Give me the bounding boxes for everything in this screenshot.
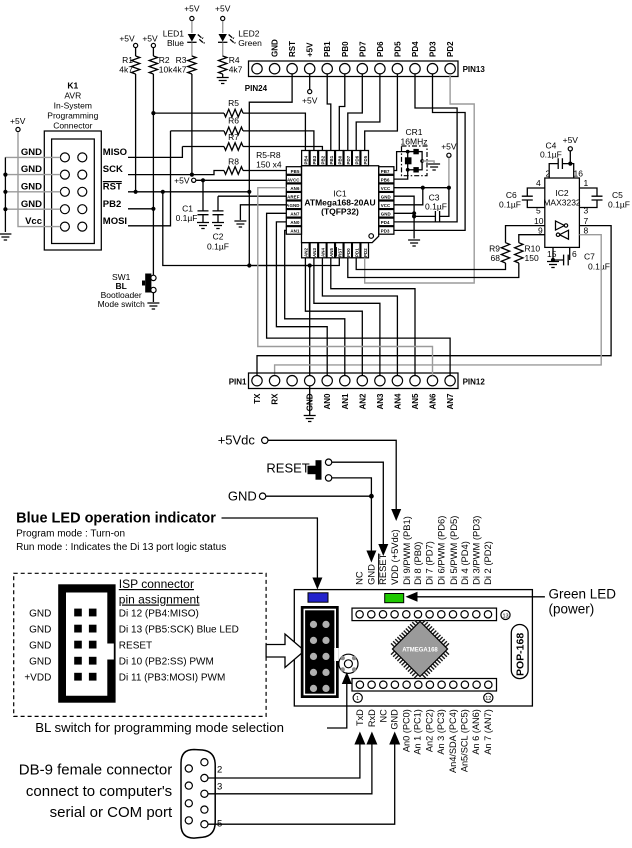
- svg-text:PB6: PB6: [381, 177, 390, 182]
- svg-text:GND: GND: [21, 164, 42, 175]
- header top pin labels: [271, 39, 456, 57]
- svg-text:3: 3: [584, 206, 589, 216]
- ground (crystal): [428, 164, 440, 170]
- resistor R1: [119, 34, 140, 194]
- svg-text:PD1: PD1: [354, 248, 359, 257]
- svg-text:3: 3: [217, 782, 222, 793]
- svg-text:AN7: AN7: [446, 393, 455, 410]
- svg-text:AN3: AN3: [312, 247, 317, 257]
- board bottom pin name labels (rotated): [355, 709, 493, 773]
- svg-text:150: 150: [525, 253, 539, 263]
- svg-text:+5V: +5V: [441, 142, 457, 152]
- svg-text:GND: GND: [390, 709, 400, 730]
- svg-text:RST: RST: [337, 248, 342, 257]
- svg-text:TxD: TxD: [355, 709, 365, 726]
- wire RST row: [128, 191, 249, 193]
- svg-text:R4: R4: [229, 55, 240, 65]
- resistor R10: [348, 235, 545, 278]
- svg-text:PD2: PD2: [363, 248, 368, 257]
- svg-text:NC: NC: [378, 709, 388, 723]
- svg-text:R8: R8: [228, 157, 239, 167]
- svg-text:PB3: PB3: [312, 155, 317, 164]
- svg-text:serial or COM port: serial or COM port: [50, 804, 173, 821]
- label green LED: [406, 587, 617, 617]
- svg-text:6: 6: [572, 249, 577, 259]
- wire GND header pin to ground: [309, 386, 311, 415]
- svg-text:An 7 (AN7): An 7 (AN7): [483, 709, 493, 754]
- wire SCK to R8: [128, 171, 224, 175]
- svg-text:TX: TX: [253, 393, 262, 404]
- svg-text:An 3 (PC3): An 3 (PC3): [436, 709, 446, 754]
- svg-text:Di 9/PWM (PB1): Di 9/PWM (PB1): [401, 516, 412, 585]
- svg-text:In-System: In-System: [54, 101, 92, 111]
- label BL switch: [35, 672, 352, 735]
- svg-text:PD5: PD5: [363, 155, 368, 164]
- board bottom female header: [352, 679, 497, 703]
- green LED on board: [385, 594, 404, 603]
- svg-text:VCC: VCC: [381, 203, 391, 208]
- svg-text:NC: NC: [354, 571, 365, 585]
- svg-text:AN6: AN6: [290, 186, 300, 191]
- svg-text:POP-168: POP-168: [515, 633, 527, 676]
- svg-text:68: 68: [491, 253, 501, 263]
- svg-text:ISP connector: ISP connector: [119, 577, 194, 591]
- svg-text:PB0: PB0: [341, 41, 350, 57]
- svg-text:AN1: AN1: [290, 229, 300, 234]
- svg-text:+5V: +5V: [563, 135, 579, 145]
- svg-text:Green: Green: [238, 38, 262, 48]
- svg-text:An 1 (PC1): An 1 (PC1): [413, 709, 423, 754]
- ground (header GND): [304, 416, 316, 422]
- ground (AGND): [234, 221, 246, 227]
- svg-text:C5: C5: [612, 190, 623, 200]
- svg-text:SCK: SCK: [103, 164, 123, 175]
- svg-text:An4/SDA (PC4): An4/SDA (PC4): [448, 709, 458, 773]
- wire crystal to ground (gray): [422, 161, 434, 163]
- svg-text:GND: GND: [228, 489, 257, 504]
- IC1 ATMega168-20AU (TQFP32) body: [302, 166, 379, 243]
- wire MOSI to R6: [128, 131, 171, 226]
- resistor R2: [142, 34, 173, 276]
- wire header PD7 to IC: [348, 74, 363, 151]
- ground (SW1): [147, 303, 159, 309]
- svg-text:0.1µF: 0.1µF: [588, 262, 610, 272]
- wire IC2 pin8 to RX (gray): [275, 235, 602, 376]
- node +5V (IC2): [563, 135, 579, 164]
- svg-text:Di 2 (PD2): Di 2 (PD2): [482, 541, 493, 585]
- wire AN3: [314, 258, 380, 376]
- svg-text:C1: C1: [182, 204, 193, 214]
- capacitor C3: [414, 188, 449, 222]
- IC1 right pin boxes: [379, 167, 394, 235]
- svg-text:ATMEGA168: ATMEGA168: [402, 648, 438, 654]
- svg-text:PD6: PD6: [376, 41, 385, 57]
- svg-text:0.1µF: 0.1µF: [207, 242, 229, 252]
- svg-text:+5V: +5V: [306, 42, 315, 57]
- svg-text:An0 (PC0): An0 (PC0): [401, 709, 411, 752]
- svg-text:RST: RST: [103, 181, 122, 192]
- ISP connector drawing: [58, 584, 115, 702]
- svg-text:AN4: AN4: [321, 247, 326, 257]
- svg-text:PD4: PD4: [381, 220, 390, 225]
- ground (K1): [0, 234, 11, 240]
- svg-text:+5V: +5V: [302, 96, 318, 106]
- svg-text:7: 7: [584, 216, 589, 226]
- wire AGND to ground: [240, 205, 286, 220]
- svg-text:AVR: AVR: [64, 91, 81, 101]
- svg-text:150 x4: 150 x4: [256, 160, 282, 170]
- svg-text:RST: RST: [288, 41, 297, 57]
- wire IC2 pin7 to TX: [257, 226, 611, 376]
- ground (C2): [212, 223, 224, 229]
- board top pin name labels (rotated): [354, 516, 493, 585]
- IC1 top pin boxes: [302, 151, 369, 166]
- svg-text:10: 10: [534, 216, 544, 226]
- wire DB9 pin2 to TxD: [208, 732, 365, 779]
- wire C2 to AREF: [218, 195, 286, 197]
- wire header PD2 to IC (gray): [365, 74, 475, 283]
- capacitor C1: [176, 180, 209, 223]
- connector K1: [44, 131, 101, 250]
- wire PB7 to crystal: [394, 152, 408, 171]
- svg-text:R6: R6: [228, 116, 239, 126]
- svg-text:AVCC: AVCC: [287, 177, 300, 182]
- svg-text:AREF: AREF: [287, 195, 300, 200]
- svg-text:PIN24: PIN24: [245, 84, 268, 93]
- resistor R8: [224, 157, 286, 175]
- wire header PD5 to IC: [365, 74, 398, 151]
- svg-text:GND: GND: [21, 147, 42, 158]
- svg-text:PB2: PB2: [103, 199, 121, 210]
- header bottom pin labels: [253, 393, 455, 411]
- svg-text:Di 12 (PB4:MISO): Di 12 (PB4:MISO): [119, 609, 199, 620]
- svg-text:+5V: +5V: [174, 176, 190, 186]
- svg-text:AN4: AN4: [393, 393, 402, 410]
- svg-text:PD0: PD0: [346, 248, 351, 257]
- capacitor C5: [579, 178, 630, 216]
- power +5V (K1): [10, 116, 26, 132]
- svg-text:AN3: AN3: [376, 393, 385, 410]
- wire AN7: [267, 213, 451, 375]
- ground (R4): [217, 78, 229, 84]
- svg-text:R5-R8: R5-R8: [256, 150, 281, 160]
- svg-text:C2: C2: [213, 232, 224, 242]
- wire IC2 pin15 to ground: [547, 247, 557, 262]
- node +5V (near crystal): [441, 142, 457, 188]
- svg-text:R3: R3: [176, 55, 187, 65]
- svg-text:PD6: PD6: [354, 155, 359, 164]
- resistor R3: [173, 43, 196, 177]
- svg-text:VDD (+5Vdc): VDD (+5Vdc): [389, 529, 400, 585]
- svg-text:RESET: RESET: [119, 641, 152, 652]
- svg-text:PB7: PB7: [381, 169, 390, 174]
- svg-text:GND: GND: [21, 181, 42, 192]
- wire GND net: [394, 196, 416, 238]
- svg-text:R10: R10: [525, 244, 541, 254]
- capacitor C4: [540, 141, 583, 179]
- push button RESET: [266, 459, 388, 556]
- svg-text:PB2: PB2: [321, 155, 326, 164]
- svg-text:GND: GND: [271, 39, 280, 57]
- svg-text:16: 16: [574, 169, 584, 179]
- wire GND net to header GND pin: [161, 190, 312, 376]
- node GND: [228, 489, 377, 563]
- svg-text:PD5: PD5: [393, 41, 402, 57]
- ISP header on board: [301, 606, 339, 698]
- svg-text:AN2: AN2: [304, 247, 309, 257]
- svg-text:2: 2: [546, 169, 551, 179]
- svg-text:GND: GND: [29, 625, 51, 636]
- wire header PB0 to IC: [339, 74, 345, 151]
- svg-text:+5V: +5V: [10, 116, 26, 126]
- svg-text:Di 8 (PB0): Di 8 (PB0): [412, 542, 423, 585]
- buffer (IC2 internal): [534, 216, 589, 239]
- svg-text:PIN12: PIN12: [463, 377, 486, 386]
- capacitor C7: [553, 247, 610, 271]
- LED2: [215, 4, 262, 49]
- svg-text:R7: R7: [228, 132, 239, 142]
- wire K1 Vcc to +5V: [18, 132, 60, 227]
- svg-text:+5V: +5V: [142, 34, 158, 44]
- svg-text:An2 (PC2): An2 (PC2): [425, 709, 435, 752]
- svg-text:AN7: AN7: [290, 212, 300, 217]
- capacitor C6: [499, 178, 545, 216]
- wire AN2: [305, 258, 362, 376]
- svg-text:0.1µF: 0.1µF: [608, 200, 630, 210]
- svg-text:+5Vdc: +5Vdc: [218, 433, 256, 448]
- svg-text:Programming: Programming: [47, 111, 98, 121]
- svg-text:10k: 10k: [159, 65, 173, 75]
- IC1 left pin boxes: [286, 167, 301, 235]
- svg-text:MISO: MISO: [103, 147, 127, 158]
- svg-text:IC2: IC2: [555, 188, 569, 198]
- svg-text:An5/SCL (PC5): An5/SCL (PC5): [460, 709, 470, 772]
- svg-text:Di 5/PWM (PD5): Di 5/PWM (PD5): [448, 516, 459, 585]
- wire K1 GND bus: [3, 157, 60, 232]
- svg-text:GND: GND: [29, 609, 51, 620]
- resistor R9: [356, 226, 545, 270]
- svg-text:AN0: AN0: [290, 220, 300, 225]
- wire MISO to R7: [128, 147, 182, 158]
- wire PB6 to crystal: [394, 170, 408, 179]
- wire RST from header: [247, 74, 339, 268]
- svg-text:RxD: RxD: [367, 709, 377, 727]
- switch SW1: [98, 272, 157, 309]
- svg-text:C7: C7: [584, 252, 595, 262]
- svg-text:connect to computer's: connect to computer's: [26, 783, 172, 800]
- LED1: [163, 4, 205, 49]
- wire PB2 row: [128, 208, 153, 210]
- svg-text:Connector: Connector: [53, 121, 92, 131]
- board top female header: [352, 608, 510, 621]
- svg-text:+5V: +5V: [119, 34, 135, 44]
- wire AN6 (gray): [258, 188, 433, 376]
- wire VCC net: [394, 186, 451, 205]
- svg-text:GND: GND: [366, 564, 377, 585]
- wire DB9 pin5 to GND: [208, 732, 400, 830]
- wire AN4: [322, 258, 397, 376]
- wire header PD4 to IC: [394, 74, 457, 222]
- svg-text:PB1: PB1: [329, 155, 334, 164]
- ISP assignment labels: [24, 609, 239, 684]
- block arrow to ISP: [266, 634, 304, 668]
- wire DB9 pin3 to RxD: [208, 732, 377, 794]
- wire AN1: [285, 230, 345, 375]
- svg-text:PD2: PD2: [446, 41, 455, 57]
- label R5-R8 value: [256, 150, 282, 170]
- svg-text:AN5: AN5: [411, 393, 420, 410]
- resistor R5: [153, 98, 305, 151]
- svg-text:CR1: CR1: [405, 127, 422, 137]
- svg-text:AN5: AN5: [329, 247, 334, 257]
- svg-text:(power): (power): [549, 602, 595, 617]
- svg-text:GND: GND: [21, 199, 42, 210]
- svg-text:K1: K1: [67, 81, 78, 91]
- svg-text:Di 11 (PB3:MOSI) PWM: Di 11 (PB3:MOSI) PWM: [119, 673, 226, 684]
- svg-text:PD4: PD4: [411, 41, 420, 57]
- svg-text:4: 4: [536, 178, 541, 188]
- svg-text:AN1: AN1: [341, 393, 350, 410]
- svg-text:0.1µF: 0.1µF: [425, 202, 447, 212]
- svg-text:Run mode : Indicates the Di 13: Run mode : Indicates the Di 13 port logi…: [16, 542, 226, 553]
- svg-text:An 6 (AN6): An 6 (AN6): [471, 709, 481, 754]
- node +5Vdc: [218, 433, 402, 522]
- svg-text:Di 4 (PD4): Di 4 (PD4): [459, 541, 470, 585]
- label blue LED indicator: [16, 511, 322, 590]
- svg-text:MAX3232: MAX3232: [543, 198, 581, 208]
- resistor R7: [182, 132, 322, 151]
- svg-text:GND: GND: [29, 657, 51, 668]
- svg-text:Program mode : Turn-on: Program mode : Turn-on: [16, 529, 125, 540]
- svg-text:PIN1: PIN1: [229, 377, 247, 386]
- svg-text:Di 10 (PB2:SS) PWM: Di 10 (PB2:SS) PWM: [119, 657, 214, 668]
- header PIN24/PIN13 (top): [245, 61, 486, 93]
- svg-text:BL switch for programming mode: BL switch for programming mode selection: [35, 720, 284, 735]
- svg-text:MOSI: MOSI: [103, 216, 127, 227]
- ISP assignment title: [119, 577, 200, 607]
- svg-text:R5: R5: [228, 98, 239, 108]
- svg-text:Vcc: Vcc: [25, 216, 42, 227]
- svg-text:Green LED: Green LED: [549, 587, 617, 602]
- svg-text:PD7: PD7: [358, 41, 367, 57]
- svg-text:+5V: +5V: [215, 4, 231, 14]
- svg-text:R2: R2: [159, 55, 170, 65]
- chip ATMEGA168 on board: [385, 614, 454, 683]
- svg-text:RESET: RESET: [266, 461, 309, 476]
- svg-text:16MHz: 16MHz: [401, 137, 428, 147]
- svg-text:15: 15: [547, 249, 557, 259]
- svg-text:2: 2: [217, 765, 222, 776]
- svg-text:PB5: PB5: [291, 169, 300, 174]
- svg-text:GND: GND: [381, 195, 391, 200]
- svg-text:PB1: PB1: [323, 41, 332, 57]
- svg-text:PB0: PB0: [337, 155, 342, 164]
- svg-text:PD3: PD3: [381, 229, 390, 234]
- wire AN5: [331, 258, 415, 376]
- svg-text:VCC: VCC: [381, 186, 391, 191]
- svg-text:DB-9 female connector: DB-9 female connector: [19, 762, 172, 779]
- svg-text:Blue LED operation indicator: Blue LED operation indicator: [16, 511, 216, 527]
- svg-text:+5V: +5V: [184, 4, 200, 14]
- POP-168 silkscreen label: [511, 625, 528, 679]
- svg-text:1: 1: [584, 178, 589, 188]
- svg-text:AN6: AN6: [429, 393, 438, 410]
- svg-text:LED1: LED1: [163, 29, 185, 39]
- svg-text:RX: RX: [271, 393, 280, 405]
- svg-text:LED2: LED2: [238, 29, 260, 39]
- connector K1 title: [47, 81, 98, 131]
- wire header PD3 to IC: [394, 74, 465, 230]
- node +5V below header: [302, 74, 318, 106]
- svg-text:13: 13: [502, 613, 508, 619]
- svg-text:0.1µF: 0.1µF: [540, 150, 562, 160]
- svg-text:pin assignment: pin assignment: [119, 593, 200, 607]
- ground (IC2): [547, 262, 559, 268]
- svg-text:Mode switch: Mode switch: [98, 299, 146, 309]
- header PIN1/PIN12 (bottom): [229, 373, 486, 389]
- svg-text:Di 7 (PD7): Di 7 (PD7): [424, 541, 435, 585]
- svg-text:GND: GND: [29, 641, 51, 652]
- node +5V / AVCC: [174, 176, 286, 186]
- wire header PD6 to IC: [356, 74, 380, 151]
- svg-text:(TQFP32): (TQFP32): [321, 207, 359, 217]
- resistor R4: [219, 43, 243, 77]
- ground (C1): [197, 223, 209, 229]
- svg-text:PD7: PD7: [346, 155, 351, 164]
- BL switch on board: [339, 654, 358, 673]
- svg-text:AN2: AN2: [358, 393, 367, 410]
- wire AN0: [276, 222, 327, 376]
- svg-text:5: 5: [536, 206, 541, 216]
- svg-text:0.1µF: 0.1µF: [499, 200, 521, 210]
- resistor R6: [171, 116, 314, 151]
- board POP-168 outline: [294, 590, 532, 706]
- svg-text:AN0: AN0: [323, 393, 332, 410]
- svg-text:Di 13 (PB5:SCK) Blue LED: Di 13 (PB5:SCK) Blue LED: [119, 625, 239, 636]
- svg-text:Di 6/PWM (PD6): Di 6/PWM (PD6): [436, 516, 447, 585]
- svg-text:1: 1: [356, 696, 359, 702]
- svg-text:0.1µF: 0.1µF: [176, 213, 198, 223]
- ground (IC1 GND/C3): [408, 240, 420, 246]
- svg-text:4k7: 4k7: [173, 65, 187, 75]
- ISP assignment dashed box: [14, 573, 266, 716]
- blue LED on board: [308, 593, 328, 602]
- svg-text:Di 3/PWM (PD3): Di 3/PWM (PD3): [471, 516, 482, 585]
- label DB-9 text: [19, 762, 173, 822]
- svg-text:PB4: PB4: [304, 155, 309, 164]
- IC1 bottom pin boxes: [302, 243, 369, 258]
- IC2 MAX3232 body: [543, 178, 581, 247]
- svg-text:C6: C6: [506, 190, 517, 200]
- svg-text:AGND: AGND: [286, 203, 299, 208]
- capacitor C2: [207, 196, 229, 251]
- wire header PB1 to IC: [327, 74, 331, 151]
- svg-text:GND: GND: [381, 212, 391, 217]
- svg-text:12: 12: [485, 696, 491, 702]
- svg-text:PD3: PD3: [429, 41, 438, 57]
- crystal CR1: [401, 127, 428, 176]
- svg-text:9: 9: [538, 226, 543, 236]
- svg-text:+VDD: +VDD: [24, 673, 51, 684]
- svg-text:4k7: 4k7: [229, 65, 243, 75]
- DB-9 connector: [181, 750, 215, 839]
- svg-text:Blue: Blue: [167, 38, 184, 48]
- svg-text:PIN13: PIN13: [463, 65, 486, 74]
- svg-text:R9: R9: [489, 244, 500, 254]
